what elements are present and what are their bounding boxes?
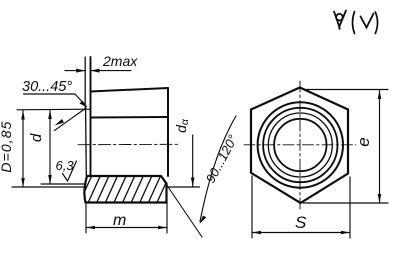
d top arrowhead: [48, 110, 52, 119]
extension line lower B: [41, 183, 86, 185]
d_alpha arrowhead: [191, 178, 195, 187]
svg-text:2max: 2max: [102, 53, 138, 69]
countersink cone extension line: [162, 178, 202, 237]
extension line of chamfer circle (left): [17, 108, 90, 111]
chamfer circle line L2: [91, 116, 169, 119]
check inside parens: [361, 14, 374, 28]
m right arrowhead: [158, 226, 167, 230]
S right extension line: [349, 177, 351, 238]
m left arrowhead: [86, 226, 95, 230]
D top arrowhead: [21, 111, 25, 120]
outer thread circle: [263, 108, 337, 182]
S left arrowhead: [252, 231, 261, 235]
e bottom extension line: [303, 202, 388, 204]
e top extension line: [303, 89, 388, 91]
parenthesis left: [353, 12, 355, 34]
svg-text:dα: dα: [173, 118, 191, 133]
small arrow on diagonal: [55, 119, 65, 126]
roughness mark 6,3 check: [63, 161, 77, 181]
d bottom arrowhead: [48, 175, 52, 184]
2max right arrowhead: [91, 69, 100, 73]
svg-text:d: d: [28, 133, 45, 142]
e bottom arrowhead: [378, 194, 382, 203]
30...45 leader arrowhead: [80, 101, 88, 108]
middle circle: [268, 113, 332, 177]
S dimension line: [252, 232, 350, 234]
30...45 leader line: [75, 94, 87, 107]
chamfer angle construction diagonal: [55, 108, 87, 131]
hexagon horizontal center line: [244, 144, 356, 146]
e dimension line: [379, 90, 381, 203]
top face line: [91, 88, 169, 92]
svg-text:30...45°: 30...45°: [22, 79, 72, 95]
D dimension line: [22, 111, 24, 188]
m dimension left extension line: [85, 203, 87, 233]
S left extension line: [251, 176, 253, 238]
hatched section (bearing flange): [84, 176, 166, 203]
e top arrowhead: [378, 90, 382, 99]
parenthesis right: [375, 12, 377, 34]
2max dimension line left part: [65, 70, 85, 72]
d_alpha bottom extension line: [167, 186, 200, 188]
D bottom arrowhead: [21, 178, 25, 187]
hexagon outline: [251, 88, 348, 204]
nut body left edge: [90, 57, 92, 176]
svg-text:D=0,85: D=0,85: [0, 120, 14, 172]
body right edge: [167, 88, 169, 176]
left face lower segment: [85, 110, 88, 176]
svg-text:e: e: [354, 137, 373, 146]
hatch lines: [78, 172, 180, 206]
30...45 leader underline: [24, 93, 76, 95]
svg-text:S: S: [295, 213, 307, 232]
hexagon vertical center line: [299, 81, 301, 212]
chamfer circle: [258, 102, 343, 187]
svg-text:90...120°: 90...120°: [203, 132, 241, 185]
svg-text:m: m: [113, 212, 126, 229]
d_alpha dimension line: [192, 135, 194, 187]
m dimension right extension line: [166, 203, 168, 233]
2max dimension line right part: [91, 70, 132, 72]
surface finish symbol (check with circle): [334, 11, 346, 29]
extension line lower A: [12, 186, 86, 188]
S right arrowhead: [341, 231, 350, 235]
2max left arrowhead: [76, 69, 85, 73]
d dimension line: [49, 110, 51, 184]
center line (dash-dot): [78, 143, 178, 145]
svg-text:6,3: 6,3: [56, 158, 75, 173]
m dimension line: [86, 227, 167, 229]
bore circle: [274, 119, 326, 171]
90...120 angle arc: [200, 116, 236, 222]
90...120 arc arrowhead: [200, 216, 207, 225]
nut body left face chamfer line: [84, 57, 86, 110]
